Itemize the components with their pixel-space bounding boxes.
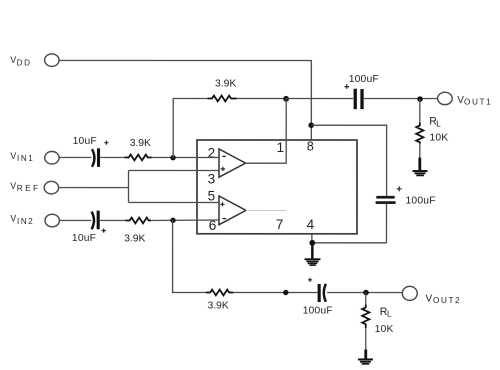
junction VDD bypass node — [308, 122, 314, 128]
wire output node to C1 — [286, 98, 353, 100]
wire C5 to R3 — [100, 219, 126, 221]
svg-text:7: 7 — [276, 217, 284, 232]
op-amp U1B faint output wire — [246, 209, 286, 211]
svg-text:1: 1 — [277, 140, 285, 155]
svg-text:10K: 10K — [375, 324, 394, 335]
svg-text:IN2: IN2 — [17, 217, 34, 226]
wire C3 to VOUT2 — [327, 292, 402, 294]
resistor RL1 10K — [416, 123, 423, 144]
svg-text:100uF: 100uF — [405, 196, 435, 207]
capacitor C2 100uF bypass plates — [376, 196, 394, 199]
svg-text:3.9K: 3.9K — [130, 138, 151, 149]
svg-text:10uF: 10uF — [72, 233, 96, 244]
capacitor C4 10uF curved plate — [92, 149, 94, 167]
wire feedback leg down — [173, 220, 206, 292]
ground G3 — [358, 358, 373, 364]
capacitor C5 10uF straight plate — [97, 211, 100, 230]
plus sign C5 — [102, 228, 106, 232]
wire C4 to R2 — [100, 156, 125, 158]
ground G1 — [413, 170, 428, 176]
capacitor C4 10uF straight plate — [97, 148, 100, 167]
terminal VOUT1 — [438, 92, 453, 104]
svg-text:3.9K: 3.9K — [208, 301, 229, 312]
resistor R1 3.9K — [208, 96, 237, 102]
wire pin3 to op-amp U1A non-inverting input — [129, 169, 220, 171]
wire RL2 to ground G3 — [365, 328, 367, 350]
svg-text:V: V — [10, 55, 16, 65]
terminal VOUT2 — [402, 286, 417, 300]
op-amp U1B plus — [220, 202, 224, 206]
IC box U1 — [197, 140, 357, 234]
svg-text:10K: 10K — [429, 132, 448, 143]
junction node VIN2/R4 — [170, 218, 175, 223]
wire R4 to C3 — [233, 291, 317, 293]
wire node to RL2 — [365, 293, 367, 305]
junction VOUT1/RL1 — [417, 96, 423, 102]
junction bottom node — [283, 290, 288, 295]
junction pin4 ground — [309, 240, 315, 246]
ground G2 (pin 4) — [304, 243, 320, 266]
junction node VIN1/R1 — [170, 155, 175, 160]
svg-text:L: L — [436, 119, 441, 128]
capacitor C3 100uF curved plate — [324, 284, 326, 302]
svg-text:4: 4 — [307, 217, 315, 232]
resistor R4 3.9K — [206, 290, 233, 296]
wire C2 to ground bus — [385, 204, 387, 243]
wire pin 4 stub — [311, 234, 313, 243]
svg-text:100uF: 100uF — [303, 306, 333, 317]
wire R3 to op-amp U1B inverting input — [151, 219, 219, 222]
op-amp U1B minus — [223, 218, 227, 220]
wire C1 to VOUT1 — [364, 98, 438, 100]
wire RL1 to ground G1 — [419, 144, 421, 159]
wire pin5 to op-amp U1B non-inverting input — [128, 201, 219, 203]
op-amp U1B — [219, 196, 246, 225]
svg-text:OUT1: OUT1 — [464, 97, 492, 106]
terminal VREF — [44, 181, 58, 194]
svg-text:OUT2: OUT2 — [433, 296, 461, 305]
capacitor C3 100uF straight plate — [318, 284, 321, 302]
resistor R2 3.9K — [125, 155, 152, 161]
terminal VIN1 — [45, 151, 59, 164]
junction feedback/pin1 node — [283, 96, 289, 102]
capacitor C5 10uF curved plate — [92, 212, 94, 230]
terminal VIN2 — [45, 214, 59, 227]
svg-text:V: V — [10, 181, 16, 191]
plus sign C2 — [397, 186, 402, 191]
svg-text:100uF: 100uF — [349, 74, 379, 85]
wire op-amp U1A output to pin 1 node — [246, 99, 287, 163]
op-amp U1A plus — [221, 167, 225, 171]
svg-text:5: 5 — [208, 189, 216, 204]
svg-text:3.9K: 3.9K — [215, 78, 236, 89]
svg-text:V: V — [10, 214, 16, 224]
op-amp U1A — [219, 149, 246, 177]
svg-text:DD: DD — [17, 59, 32, 68]
svg-text:V: V — [425, 294, 432, 305]
svg-text:L: L — [387, 310, 392, 319]
svg-text:3.9K: 3.9K — [124, 233, 145, 244]
junction VOUT2/RL2 — [363, 290, 369, 296]
svg-text:8: 8 — [307, 139, 314, 153]
wire node to RL1 — [419, 99, 421, 122]
plus sign C1 — [344, 84, 349, 89]
plus sign C3 — [308, 278, 312, 282]
wire R2 to op-amp U1A inverting input — [152, 156, 219, 158]
svg-text:IN1: IN1 — [17, 154, 34, 163]
wire ground bus — [312, 242, 386, 244]
wire VIN1 to C4 — [59, 156, 91, 158]
capacitor C1 100uF plates — [354, 89, 357, 109]
wire VDD rail to pin 8 — [59, 60, 311, 140]
resistor RL2 10K — [362, 305, 369, 329]
wire VREF — [59, 187, 128, 189]
terminal VDD — [45, 54, 59, 67]
wire bypass branch — [311, 125, 386, 196]
wire VREF vertical — [127, 170, 129, 202]
svg-text:10uF: 10uF — [73, 136, 97, 147]
resistor R3 3.9K — [125, 218, 151, 224]
op-amp U1A minus — [222, 155, 226, 157]
svg-text:REF: REF — [17, 183, 41, 193]
wire feedback R1 leg — [173, 98, 207, 157]
plus sign C4 — [104, 141, 108, 145]
svg-text:3: 3 — [208, 171, 216, 186]
svg-text:V: V — [10, 151, 16, 161]
wire VIN2 to C5 — [59, 219, 91, 221]
wire R1 to node — [237, 97, 286, 99]
